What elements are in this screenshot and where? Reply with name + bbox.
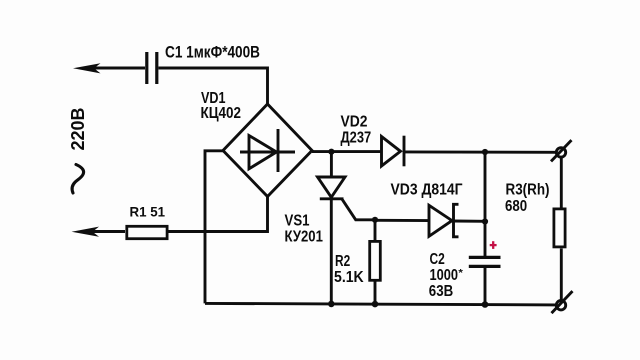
svg-text:R2: R2 [335, 253, 350, 270]
diode VD2 [382, 136, 405, 167]
wire bottom rail [205, 303, 557, 305]
svg-text:*: * [458, 268, 463, 279]
wire [93, 230, 126, 233]
svg-text:1000: 1000 [430, 267, 459, 284]
wire [375, 219, 429, 222]
wire [169, 196, 268, 232]
wire [484, 152, 487, 256]
resistor R2 [370, 241, 381, 280]
svg-text:63В: 63В [429, 283, 453, 300]
arrow AC input top [73, 63, 101, 73]
terminal output bottom [552, 291, 573, 313]
svg-text:Д237: Д237 [341, 129, 372, 146]
svg-text:КУ201: КУ201 [285, 229, 324, 246]
svg-text:VD3 Д814Г: VD3 Д814Г [391, 182, 463, 199]
capacitor C2 [469, 257, 501, 266]
wire [205, 151, 223, 304]
bridge inner diode [240, 129, 295, 172]
svg-text:5.1K: 5.1K [334, 269, 364, 286]
node junction top rail / VS1 anode [328, 149, 334, 155]
node junction top rail / C2 branch [482, 149, 488, 155]
arrow AC input bottom [72, 227, 100, 237]
resistor R1 [127, 226, 167, 238]
wire [484, 266, 487, 304]
wire [159, 68, 268, 106]
svg-text:VS1: VS1 [285, 213, 310, 230]
node junction R2 / bottom rail [372, 301, 379, 308]
capacitor C1 [147, 52, 157, 84]
svg-text:R3(Rh): R3(Rh) [506, 181, 550, 198]
thyristor VS1 [318, 152, 346, 304]
svg-text:220В: 220В [67, 108, 88, 151]
resistor R3 load [554, 209, 565, 247]
wire [94, 67, 145, 70]
svg-text:C1 1мкФ*400В: C1 1мкФ*400В [165, 43, 260, 62]
wire VS1 gate [342, 199, 375, 220]
node junction gate / R2 / VD3 [372, 217, 378, 223]
terminal output top [551, 140, 572, 161]
svg-text:680: 680 [505, 198, 527, 215]
wire [374, 282, 377, 305]
plus polarity mark [490, 241, 497, 249]
node junction C2 / bottom rail [482, 301, 489, 308]
wire [312, 150, 382, 153]
zener diode VD3 [429, 204, 459, 237]
wire [454, 220, 486, 223]
svg-text:VD2: VD2 [341, 114, 368, 131]
node junction VD3 / C2 [482, 218, 488, 224]
wire [560, 157, 563, 207]
node junction VS1 cathode / bottom rail [328, 301, 335, 308]
svg-text:R1 51: R1 51 [130, 203, 166, 219]
bridge rectifier VD1 diamond [223, 104, 312, 197]
wire [374, 220, 377, 241]
wire [560, 249, 563, 301]
wire [404, 150, 557, 153]
svg-text:КЦ402: КЦ402 [201, 105, 242, 122]
svg-text:C2: C2 [430, 251, 445, 268]
AC tilde symbol [72, 165, 83, 194]
